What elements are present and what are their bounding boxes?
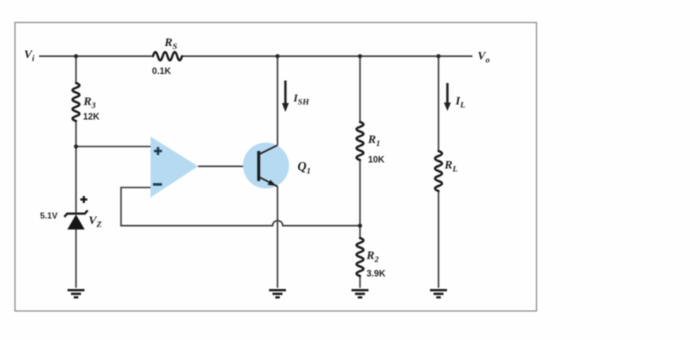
svg-text:10K: 10K <box>368 155 385 165</box>
svg-text:5.1V: 5.1V <box>40 211 58 221</box>
svg-text:0.1K: 0.1K <box>152 66 172 76</box>
svg-text:3.9K: 3.9K <box>367 269 387 279</box>
svg-text:12K: 12K <box>83 112 100 122</box>
